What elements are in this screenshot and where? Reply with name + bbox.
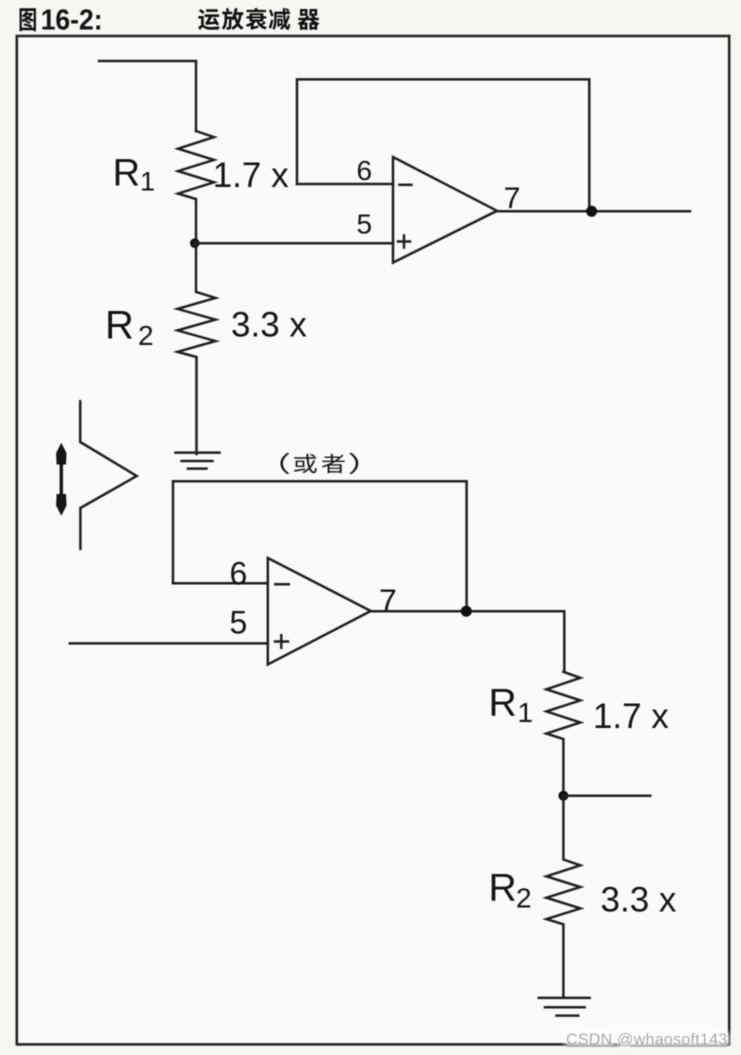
node C junction dot xyxy=(461,606,472,617)
title text 16-2: xyxy=(41,3,103,35)
svg-text:R: R xyxy=(489,867,517,910)
svg-text:3.3 x: 3.3 x xyxy=(601,881,677,920)
ground symbol (top circuit) xyxy=(176,453,220,469)
svg-text:R: R xyxy=(113,153,140,195)
wire U1 pin 6 xyxy=(297,183,393,186)
wire input to R1 xyxy=(99,61,196,131)
svg-text:1: 1 xyxy=(140,167,155,197)
svg-text:16-2:: 16-2: xyxy=(41,3,103,35)
title character 图 xyxy=(20,8,36,31)
svg-text:7: 7 xyxy=(504,182,521,215)
feedback wire U2 output to pin 6 xyxy=(173,481,467,611)
svg-text:5: 5 xyxy=(357,209,373,240)
svg-text:2: 2 xyxy=(138,320,154,351)
svg-text:5: 5 xyxy=(230,605,248,641)
U1 inverting input marker xyxy=(400,184,412,187)
U2 non-inverting input marker xyxy=(275,635,288,647)
svg-text:7: 7 xyxy=(379,583,397,619)
svg-text:CSDN @whaosoft143: CSDN @whaosoft143 xyxy=(566,1031,728,1048)
feedback wire U1 output to pin 6 xyxy=(297,79,589,211)
node B junction dot xyxy=(586,206,597,217)
op-amp U1 xyxy=(393,157,497,263)
wire tap from node D xyxy=(563,794,650,797)
U2 inverting input marker xyxy=(275,583,289,586)
title text 运放衰减器 xyxy=(198,8,319,30)
adjustment double arrow xyxy=(56,443,66,516)
resistor R2 (bottom circuit) xyxy=(546,796,580,997)
wire node A to U1 pin 5 xyxy=(195,242,393,245)
wire U2 pin 5 input xyxy=(70,642,268,645)
node A junction dot xyxy=(190,238,200,248)
wire U1 output xyxy=(497,210,690,213)
resistor R1 (bottom circuit) xyxy=(546,672,580,796)
op-amp U2 xyxy=(268,558,371,665)
ground symbol (bottom circuit) xyxy=(539,998,590,1016)
svg-text:1.7 x: 1.7 x xyxy=(213,156,289,195)
svg-text:R: R xyxy=(489,682,517,725)
svg-text:1.7 x: 1.7 x xyxy=(593,697,669,736)
resistor R1 (top circuit) xyxy=(178,131,214,243)
wire U2 output to R1 xyxy=(371,611,565,672)
resistor R2 (top circuit) xyxy=(178,243,216,454)
svg-text:6: 6 xyxy=(230,556,248,592)
potentiometer wiper symbol xyxy=(80,401,137,548)
svg-text:2: 2 xyxy=(516,883,532,914)
svg-text:1: 1 xyxy=(518,697,534,728)
svg-text:3.3 x: 3.3 x xyxy=(231,306,307,345)
svg-text:R: R xyxy=(105,304,134,348)
node D junction dot xyxy=(558,791,568,801)
label （或者） xyxy=(280,453,358,474)
wire U2 pin 6 xyxy=(173,582,268,585)
U1 non-inverting input marker xyxy=(398,236,410,248)
svg-text:6: 6 xyxy=(357,155,373,186)
